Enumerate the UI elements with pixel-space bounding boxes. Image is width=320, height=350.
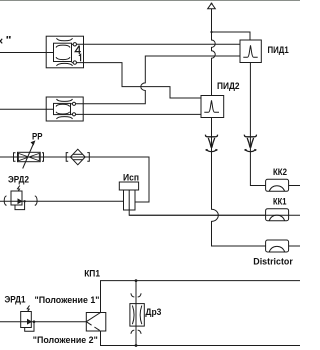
wire: long line from KP1 bottom to right edge	[101, 331, 301, 346]
injector Isp	[119, 182, 138, 210]
solenoid valve ERD1	[21, 306, 36, 332]
union fitting right of RR	[42, 153, 44, 162]
union fitting right of filter	[87, 153, 89, 162]
op-amp PID2 detector box	[201, 96, 224, 118]
svg-text:Districtor: Districtor	[253, 257, 293, 268]
top border	[0, 0, 300, 2]
junction dot Dr3 top	[135, 279, 138, 282]
wire: Districtor out to right edge	[289, 245, 300, 247]
node Vx inlet label	[0, 39, 2, 44]
wire: D1 top outlet to PID1 left (upper)	[77, 43, 241, 45]
union fitting below Dr3	[131, 330, 141, 334]
wire: PID1 bottom to flame vent 1	[249, 63, 251, 153]
svg-text:РР: РР	[32, 131, 43, 142]
wire: column line from Isp to KK1 to right edge	[129, 210, 300, 215]
wire: carrier inlet row through RR and filter, down to Isp right	[0, 157, 149, 202]
flame vent symbol 2 (under PID2)	[205, 135, 217, 152]
branch: vertical to PID1 top inlet	[212, 32, 251, 40]
svg-text:ЭРД1: ЭРД1	[5, 295, 27, 306]
wire: inlet to detector block D2	[0, 108, 54, 110]
wire: PID2 bottom to flame vent 2	[211, 118, 213, 153]
svg-text:ЭРД2: ЭРД2	[8, 174, 29, 185]
throttle Dr3	[130, 304, 144, 327]
restrictor Districtor	[266, 240, 289, 252]
main carrier-gas vertical with two hops	[212, 9, 216, 96]
wire: long line from KP1 top to right edge	[101, 281, 301, 313]
union fitting right of ERD2	[35, 196, 37, 206]
junction dot Dr3 bottom	[135, 344, 138, 347]
adjustment arrow through RR	[23, 144, 34, 169]
svg-text:Др3: Др3	[145, 307, 161, 318]
wire: D2 bottom outlet to PID2 left (lower)	[76, 113, 201, 115]
restrictor KK2	[266, 179, 289, 191]
flame vent symbol 1 (under PID1)	[244, 135, 256, 152]
vent arrow (to atmosphere, top)	[208, 3, 216, 8]
wire: inlet to detector block D1	[0, 52, 54, 54]
wire: Dr3 branch vertical	[135, 281, 137, 346]
flow regulator RR	[18, 152, 41, 161]
op-amp PID1 detector box	[240, 40, 261, 63]
wire: vent2 down, hop over KK1 line, then right into Districtor	[212, 153, 266, 247]
wire: D2 top outlet up-over to PID1 left (lower), hops over stepped wire	[76, 56, 240, 104]
svg-text:ПИД2: ПИД2	[217, 81, 240, 92]
svg-text:"Положение 1": "Положение 1"	[35, 295, 100, 305]
svg-text:ПИД1: ПИД1	[268, 45, 290, 56]
filter F1 (diamond)	[70, 149, 85, 165]
svg-text:КП1: КП1	[84, 268, 100, 279]
switching valve KP1	[86, 313, 106, 332]
wire: ERD2 row to Isp left	[0, 200, 124, 202]
union fitting above Dr3	[131, 293, 141, 297]
svg-text:"Положение 2": "Положение 2"	[33, 335, 98, 345]
union fitting left of ERD2	[4, 196, 6, 206]
detector block D1 (thermostat)	[46, 36, 83, 68]
wire: D1 bottom outlet to PID2 left (upper), stepped	[77, 63, 202, 98]
wire: vent1 down then right into KK2	[250, 153, 265, 186]
pin number 1 on D1	[79, 54, 81, 61]
junction at branch	[210, 31, 212, 33]
restrictor KK1	[266, 209, 289, 221]
wire: ERD1 row to KP1 left	[0, 321, 86, 323]
svg-text:КК2: КК2	[273, 167, 287, 178]
wire: KK2 out to right edge	[289, 185, 300, 187]
pin number 4 on D1	[75, 46, 81, 55]
detector block D2 (thermostat)	[46, 97, 83, 121]
svg-text:КК1: КК1	[273, 197, 287, 208]
solenoid valve ERD2	[11, 186, 26, 210]
union fitting left of filter	[66, 153, 68, 162]
union fitting left of RR	[14, 153, 16, 162]
